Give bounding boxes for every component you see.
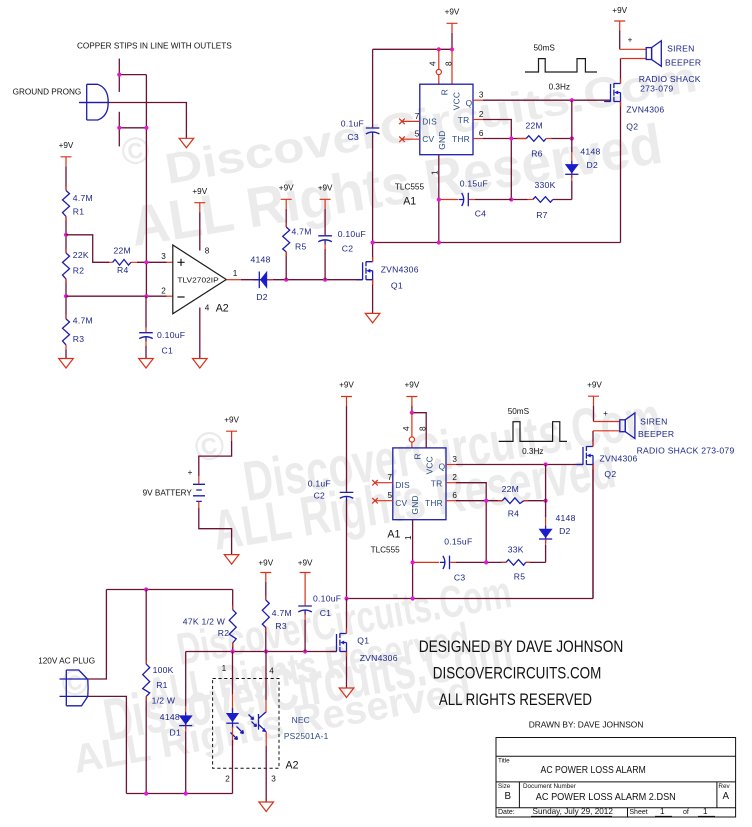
wire R2 to opto rail xyxy=(232,643,234,652)
svg-text:CV: CV xyxy=(422,134,434,144)
pin 6 THR wire xyxy=(473,138,483,140)
watermark instance A xyxy=(118,53,700,258)
watermark instance C xyxy=(143,568,515,720)
svg-text:50mS: 50mS xyxy=(534,43,556,52)
svg-text:R6: R6 xyxy=(531,149,543,159)
copper strip plate upper xyxy=(118,59,120,92)
optocoupler A2 PS2501A-1 dashed box xyxy=(213,679,279,769)
svg-text:5: 5 xyxy=(388,491,393,500)
svg-text:3: 3 xyxy=(161,252,166,261)
node rail/GND pin xyxy=(437,240,441,244)
svg-text:SIREN: SIREN xyxy=(640,416,668,426)
svg-text:33K: 33K xyxy=(508,544,524,554)
capacitor C3 0.1uF xyxy=(366,128,380,137)
svg-text:SIREN: SIREN xyxy=(667,44,695,54)
svg-text:22K: 22K xyxy=(73,250,89,260)
wire R3 to gate rail xyxy=(265,628,267,652)
wire C2 to gate line xyxy=(324,244,326,249)
resistor R1 100K (bottom) xyxy=(143,664,150,696)
svg-text:DRAWN BY: DAVE JOHNSON: DRAWN BY: DAVE JOHNSON xyxy=(529,720,644,730)
power +9V (R3 bottom) xyxy=(260,573,271,583)
svg-text:7: 7 xyxy=(415,112,420,121)
node R1 bottom xyxy=(144,791,148,795)
svg-text:4: 4 xyxy=(269,667,274,676)
svg-text:7: 7 xyxy=(388,473,393,482)
svg-text:Rev: Rev xyxy=(718,783,730,790)
transistor Q1 ZVN4306 xyxy=(356,262,372,280)
svg-text:120V AC PLUG: 120V AC PLUG xyxy=(38,657,95,666)
pin 2 TR wire xyxy=(473,119,483,121)
svg-text:Q1: Q1 xyxy=(391,281,403,291)
svg-text:R: R xyxy=(440,89,450,95)
wire Q1 source to ground (bottom) xyxy=(346,651,348,688)
svg-text:22M: 22M xyxy=(526,121,543,131)
pin 2 TR wire (bottom) xyxy=(446,482,456,484)
watermark instance B xyxy=(192,386,665,562)
AC plug connector symbol xyxy=(60,670,89,706)
svg-text:C1: C1 xyxy=(162,346,174,356)
bottom rail (AC section) xyxy=(126,793,232,795)
opto pin 4 wire xyxy=(265,652,267,678)
svg-text:C1: C1 xyxy=(320,608,332,618)
wire Q2 source to rail (bottom) xyxy=(592,464,594,599)
svg-text:4148: 4148 xyxy=(160,712,180,722)
wire C1 to ground xyxy=(145,341,147,347)
pin 6 THR wire (bottom) xyxy=(446,500,456,502)
svg-text:R2: R2 xyxy=(218,628,230,638)
wire top horizontal to left bus xyxy=(373,48,452,50)
node R2/opto pin1 xyxy=(231,649,235,653)
svg-text:R: R xyxy=(413,453,423,459)
wire R4 to op-amp pin3 xyxy=(137,261,167,263)
node R1/R2/R4 xyxy=(64,233,68,237)
svg-text:GROUND PRONG: GROUND PRONG xyxy=(13,88,82,97)
node C1 xyxy=(303,649,307,653)
ground (battery) xyxy=(224,555,239,565)
svg-text:R3: R3 xyxy=(73,334,85,344)
node THR/pin2 riser (bottom) xyxy=(484,499,488,503)
svg-text:+: + xyxy=(628,36,633,45)
resistor R6 22M xyxy=(526,136,546,142)
svg-text:9V BATTERY: 9V BATTERY xyxy=(143,489,193,498)
svg-text:C2: C2 xyxy=(314,490,326,500)
wire D2 to Q1 gate xyxy=(267,279,273,281)
svg-text:A2: A2 xyxy=(286,760,299,772)
svg-text:0.15uF: 0.15uF xyxy=(460,179,488,189)
node GND pin/C3 xyxy=(411,560,415,564)
wire pin2 line xyxy=(66,295,167,297)
node R6/D2 top xyxy=(570,136,574,140)
node R1 top xyxy=(144,587,148,591)
svg-text:ZVN4306: ZVN4306 xyxy=(626,104,664,114)
svg-text:C2: C2 xyxy=(342,244,354,254)
svg-text:COPPER STIPS IN LINE WITH OUTL: COPPER STIPS IN LINE WITH OUTLETS xyxy=(77,42,232,51)
svg-text:DIS: DIS xyxy=(395,480,410,490)
power +9V (C2 bottom) xyxy=(341,397,352,407)
wire divider node down (bottom) xyxy=(545,465,547,518)
wire +9V to C1 xyxy=(304,582,306,605)
pin 4 wire with reset bubble (bottom) xyxy=(411,413,413,448)
svg-text:4148: 4148 xyxy=(251,255,271,265)
svg-text:AC POWER LOSS ALARM 2.DSN: AC POWER LOSS ALARM 2.DSN xyxy=(536,792,676,803)
watermark instance D xyxy=(58,616,517,782)
svg-text:4: 4 xyxy=(205,304,210,313)
wire Q1 source to ground xyxy=(372,279,374,313)
svg-text:273-079: 273-079 xyxy=(640,84,673,94)
resistor R4 22M (bottom) xyxy=(502,498,524,504)
node bus/pin3 xyxy=(144,260,148,264)
svg-text:4: 4 xyxy=(402,426,411,431)
node Q/divider xyxy=(570,98,574,102)
svg-text:CV: CV xyxy=(395,498,407,508)
svg-text:R7: R7 xyxy=(536,210,548,220)
node C2/gate xyxy=(323,278,327,282)
svg-text:BEEPER: BEEPER xyxy=(638,429,674,439)
top rail (AC section) xyxy=(106,589,232,591)
svg-text:D2: D2 xyxy=(559,526,571,536)
resistor R3 4.7M xyxy=(63,319,70,345)
wire strip connectors to bus xyxy=(119,75,146,128)
svg-text:DESIGNED BY DAVE JOHNSON: DESIGNED BY DAVE JOHNSON xyxy=(419,637,624,656)
wire R1 to R2 node xyxy=(65,217,67,254)
svg-text:+9V: +9V xyxy=(298,559,313,568)
bottom rail (top circuit) xyxy=(373,101,621,242)
capacitor C1 0.10uF xyxy=(139,333,153,342)
svg-text:22M: 22M xyxy=(114,246,131,256)
svg-text:4.7M: 4.7M xyxy=(272,608,292,618)
wire +9V to C2 xyxy=(324,209,326,235)
svg-text:Q2: Q2 xyxy=(604,469,616,479)
svg-text:GND: GND xyxy=(437,130,447,149)
wire +9V to battery xyxy=(199,441,232,476)
svg-text:0.10uF: 0.10uF xyxy=(157,330,185,340)
node R2/R3/pin2 xyxy=(64,294,68,298)
ground prong connector symbol xyxy=(79,84,108,120)
resistor R7 330K xyxy=(533,197,553,203)
svg-text:+: + xyxy=(188,468,193,477)
node pin8 riser xyxy=(450,47,454,51)
node pin2riser/C3/R5 xyxy=(484,560,488,564)
wire +9V to speaker plus (bottom) xyxy=(593,406,595,422)
svg-text:R1: R1 xyxy=(156,680,168,690)
svg-text:4.7M: 4.7M xyxy=(73,193,93,203)
IC A1 TLC555 (top) xyxy=(420,84,473,155)
resistor R2 47K (bottom) xyxy=(229,610,236,643)
wire Q1 drain to rail xyxy=(372,243,374,262)
pin 5 CV stub with nc cross xyxy=(403,138,420,140)
svg-text:4148: 4148 xyxy=(556,513,576,523)
wire +9V down to vcc node xyxy=(451,33,453,50)
wire +9V to R5 xyxy=(285,209,287,227)
svg-text:THR: THR xyxy=(452,134,470,144)
svg-text:+9V: +9V xyxy=(318,184,333,193)
power +9V (555 bottom) xyxy=(406,397,417,407)
svg-text:+9V: +9V xyxy=(258,559,273,568)
op-amp U A2 TLV2702IP xyxy=(173,245,227,314)
svg-text:A1: A1 xyxy=(387,528,400,540)
svg-text:100K: 100K xyxy=(153,665,174,675)
svg-text:Size: Size xyxy=(498,783,511,790)
svg-text:ALL RIGHTS RESERVED: ALL RIGHTS RESERVED xyxy=(439,690,592,709)
capacitor C3 0.15uF (bottom) xyxy=(413,561,456,563)
transistor Q1 ZVN4306 (bottom) xyxy=(330,633,346,651)
node pin4 riser xyxy=(437,47,441,51)
wire rail to R2 xyxy=(232,590,234,610)
wire ground prong to ground xyxy=(79,103,186,139)
pin 8 wire xyxy=(451,49,453,84)
ground (prong) xyxy=(179,138,194,148)
wire plug hot prong to top rail xyxy=(88,590,107,680)
svg-text:R4: R4 xyxy=(117,265,129,275)
svg-text:TR: TR xyxy=(458,115,470,125)
wire C2 down to rail xyxy=(346,500,348,598)
power +9V (C1 bottom) xyxy=(300,573,311,583)
wire battery to ground xyxy=(198,501,200,508)
svg-text:Q: Q xyxy=(439,462,446,472)
opto pin 1 wire xyxy=(232,652,234,695)
ground (op-amp pin4) xyxy=(193,359,208,369)
svg-text:C3: C3 xyxy=(454,572,466,582)
wire Q1 drain from rail node (bottom) xyxy=(346,599,348,634)
pin 5 CV stub with nc cross (bottom) xyxy=(376,500,393,502)
ground (R3) xyxy=(59,359,74,369)
power +9V (555 top) xyxy=(447,23,458,33)
svg-text:3: 3 xyxy=(452,455,457,464)
svg-text:ZVN4306: ZVN4306 xyxy=(381,264,419,274)
svg-text:5: 5 xyxy=(415,130,420,139)
svg-text:C4: C4 xyxy=(475,208,487,218)
svg-text:0.1uF: 0.1uF xyxy=(308,478,331,488)
diode D2 4148 (bottom) xyxy=(539,526,553,543)
wire divider node down xyxy=(571,100,573,152)
svg-text:4.7M: 4.7M xyxy=(292,227,312,237)
svg-text:A: A xyxy=(723,791,730,802)
opto LED xyxy=(232,708,234,728)
wire +9V to pin8 xyxy=(199,212,201,250)
junction strips xyxy=(117,73,121,77)
speaker LS2 (bottom) xyxy=(620,413,635,439)
svg-text:330K: 330K xyxy=(535,180,556,190)
svg-text:RADIO SHACK 273-079: RADIO SHACK 273-079 xyxy=(637,445,735,455)
svg-text:1: 1 xyxy=(404,535,413,540)
capacitor C1 0.10uF (bottom) xyxy=(298,606,312,615)
svg-text:VCC: VCC xyxy=(451,92,461,110)
svg-text:1: 1 xyxy=(233,269,238,278)
diode D2 4148 (op-amp output) xyxy=(253,272,273,289)
svg-text:6: 6 xyxy=(479,129,484,138)
opto phototransistor xyxy=(258,714,260,730)
wire +9V down to C2 xyxy=(346,406,348,492)
copper strip plate lower xyxy=(118,112,120,147)
svg-text:TLC555: TLC555 xyxy=(395,183,425,192)
wire rail to R1 xyxy=(145,590,147,665)
svg-text:2: 2 xyxy=(452,473,457,482)
wire C3 down to rail xyxy=(372,136,374,243)
wire +9V to R1 xyxy=(65,166,67,190)
pin 1 GND wire down to rail (bottom) xyxy=(412,520,414,599)
pin 7 DIS stub with nc cross (bottom) xyxy=(376,482,393,484)
waveform 50mS (top) xyxy=(525,59,597,72)
wire R1 to bottom rail xyxy=(145,696,147,793)
ground (C1) xyxy=(139,359,154,369)
power +9V (battery) xyxy=(226,431,237,441)
wire bus from strips down to op-amp inputs xyxy=(145,75,147,297)
resistor R5 33K (bottom) xyxy=(506,560,526,566)
svg-text:A1: A1 xyxy=(403,196,416,208)
resistor R3 4.7M (bottom) xyxy=(262,600,269,628)
svg-text:DIS: DIS xyxy=(422,116,437,126)
svg-text:ZVN4306: ZVN4306 xyxy=(600,453,638,463)
svg-text:47K 1/2 W: 47K 1/2 W xyxy=(183,617,226,627)
wire Q2 drain to speaker (bottom) xyxy=(592,431,594,447)
node Q/divider (bottom) xyxy=(544,462,548,466)
svg-text:Q: Q xyxy=(466,98,473,108)
ground (opto pin3) xyxy=(259,802,274,812)
diode D2 4148 (top right) xyxy=(565,161,579,178)
wire red stubs at mosfet drains/sources xyxy=(347,79,621,657)
svg-text:+9V: +9V xyxy=(192,187,207,196)
transistor Q2 ZVN4306 (bottom) xyxy=(577,446,593,464)
svg-text:PS2501A-1: PS2501A-1 xyxy=(284,731,329,741)
svg-text:1: 1 xyxy=(660,807,665,816)
wire +9V to R3 xyxy=(265,582,267,600)
svg-text:0.3Hz: 0.3Hz xyxy=(549,82,570,91)
svg-text:1: 1 xyxy=(222,664,227,673)
svg-text:C3: C3 xyxy=(347,132,359,142)
wire op-amp output xyxy=(226,279,241,281)
pin 1 GND wire down to rail xyxy=(438,155,440,243)
node THR/pin2 riser xyxy=(509,136,513,140)
resistor R2 22K xyxy=(63,253,70,279)
wire +9V to vcc node xyxy=(412,406,426,448)
svg-text:AC POWER LOSS ALARM: AC POWER LOSS ALARM xyxy=(541,765,646,776)
svg-text:D2: D2 xyxy=(256,292,268,302)
svg-text:D1: D1 xyxy=(170,728,182,738)
svg-text:+9V: +9V xyxy=(59,141,74,150)
pin 3 Q output wire to Q2 gate xyxy=(473,99,483,101)
svg-text:R2: R2 xyxy=(73,266,85,276)
svg-text:+9V: +9V xyxy=(612,6,627,15)
svg-text:BEEPER: BEEPER xyxy=(665,58,701,68)
svg-text:NEC: NEC xyxy=(292,715,310,725)
svg-text:0.1uF: 0.1uF xyxy=(341,119,364,129)
svg-text:A2: A2 xyxy=(216,303,229,315)
svg-text:R3: R3 xyxy=(275,621,287,631)
svg-text:RADIO SHACK: RADIO SHACK xyxy=(639,74,701,84)
opto pin 2 wire xyxy=(232,727,234,740)
node C4/R7/pin2 xyxy=(509,197,513,201)
wire left bus down to C3 xyxy=(372,49,374,127)
svg-text:Document Number: Document Number xyxy=(523,783,576,790)
svg-text:0.15uF: 0.15uF xyxy=(444,537,472,547)
resistor R1 4.7M xyxy=(63,191,70,217)
svg-text:6: 6 xyxy=(452,491,457,500)
svg-text:Title: Title xyxy=(498,758,510,765)
svg-text:4: 4 xyxy=(429,61,438,66)
node R5/gate xyxy=(284,278,288,282)
capacitor C4 0.15uF xyxy=(439,199,475,201)
title block frame xyxy=(496,738,736,818)
svg-text:of: of xyxy=(683,809,689,816)
node GND bus/C4 xyxy=(437,197,441,201)
node rail/Q1 drain xyxy=(371,240,375,244)
node D1 bottom xyxy=(184,791,188,795)
wire node to C1 xyxy=(145,296,147,328)
node pin4 top xyxy=(410,411,414,415)
svg-text:R1: R1 xyxy=(73,207,85,217)
capacitor C2 0.1uF (bottom) xyxy=(340,492,354,501)
node R4/D2 (bottom) xyxy=(544,499,548,503)
svg-text:+9V: +9V xyxy=(445,8,460,17)
wire C1 to gate rail xyxy=(304,614,306,620)
svg-text:R4: R4 xyxy=(508,509,520,519)
svg-text:+: + xyxy=(603,409,608,418)
svg-text:0.10uF: 0.10uF xyxy=(313,594,341,604)
wire +9V to speaker plus xyxy=(619,31,621,50)
node rail/C2 xyxy=(344,596,348,600)
opto LED light arrows xyxy=(231,727,244,740)
wire R3 to ground xyxy=(65,349,67,358)
svg-text:0.10uF: 0.10uF xyxy=(338,229,366,239)
svg-text:TLV2702IP: TLV2702IP xyxy=(177,278,219,285)
node R3/opto pin4 xyxy=(264,649,268,653)
svg-text:50mS: 50mS xyxy=(508,407,530,416)
pin 4 wire with reset bubble xyxy=(438,49,440,84)
wire plug neutral prong to bottom rail xyxy=(88,696,127,793)
wire D2 to R7 xyxy=(571,175,573,182)
node bus/C1/pin2 xyxy=(144,294,148,298)
power +9V (speaker top) xyxy=(614,21,625,31)
svg-text:0.3Hz: 0.3Hz xyxy=(522,447,543,456)
IC A1 TLC555 (bottom) xyxy=(393,448,446,520)
opto rail / Q1 gate rail xyxy=(186,651,337,653)
svg-text:2: 2 xyxy=(161,287,166,296)
svg-text:Q2: Q2 xyxy=(626,121,638,131)
node rail/GND pin (bottom) xyxy=(411,596,415,600)
svg-text:GND: GND xyxy=(410,495,420,514)
pin 3 Q output wire to Q2 gate (bottom) xyxy=(446,464,456,466)
svg-text:8: 8 xyxy=(419,426,428,431)
svg-text:R5: R5 xyxy=(295,242,307,252)
svg-text:2: 2 xyxy=(225,775,230,784)
pin 7 DIS stub with nc cross xyxy=(403,120,420,122)
svg-text:8: 8 xyxy=(444,61,453,66)
wire node to R4 xyxy=(66,235,109,262)
svg-text:Sunday, July 29, 2012: Sunday, July 29, 2012 xyxy=(533,807,614,816)
svg-text:+9V: +9V xyxy=(587,380,602,389)
wire D1 to bottom rail xyxy=(185,726,187,732)
transistor Q2 ZVN4306 (top) xyxy=(604,83,620,101)
ground (Q1 source) xyxy=(365,313,380,323)
power +9V (R5) xyxy=(281,199,292,209)
svg-text:D2: D2 xyxy=(587,160,599,170)
svg-text:+9V: +9V xyxy=(279,184,294,193)
capacitor C2 0.10uF xyxy=(318,236,332,245)
svg-text:R5: R5 xyxy=(514,571,526,581)
svg-text:1: 1 xyxy=(431,170,440,175)
svg-text:22M: 22M xyxy=(502,484,519,494)
wire Q2 drain to speaker xyxy=(620,59,622,84)
wire red stubs at component pins xyxy=(66,139,530,701)
svg-text:THR: THR xyxy=(425,498,443,508)
svg-text:Date:: Date: xyxy=(498,809,515,816)
svg-text:+9V: +9V xyxy=(405,381,420,390)
wire D2 to R5 (bottom) xyxy=(545,539,547,545)
wire gate rail left end to D1 xyxy=(185,652,187,707)
svg-text:TR: TR xyxy=(431,479,443,489)
opto light arrows toward transistor xyxy=(249,715,257,727)
power +9V (op-amp pin8) xyxy=(194,203,205,213)
